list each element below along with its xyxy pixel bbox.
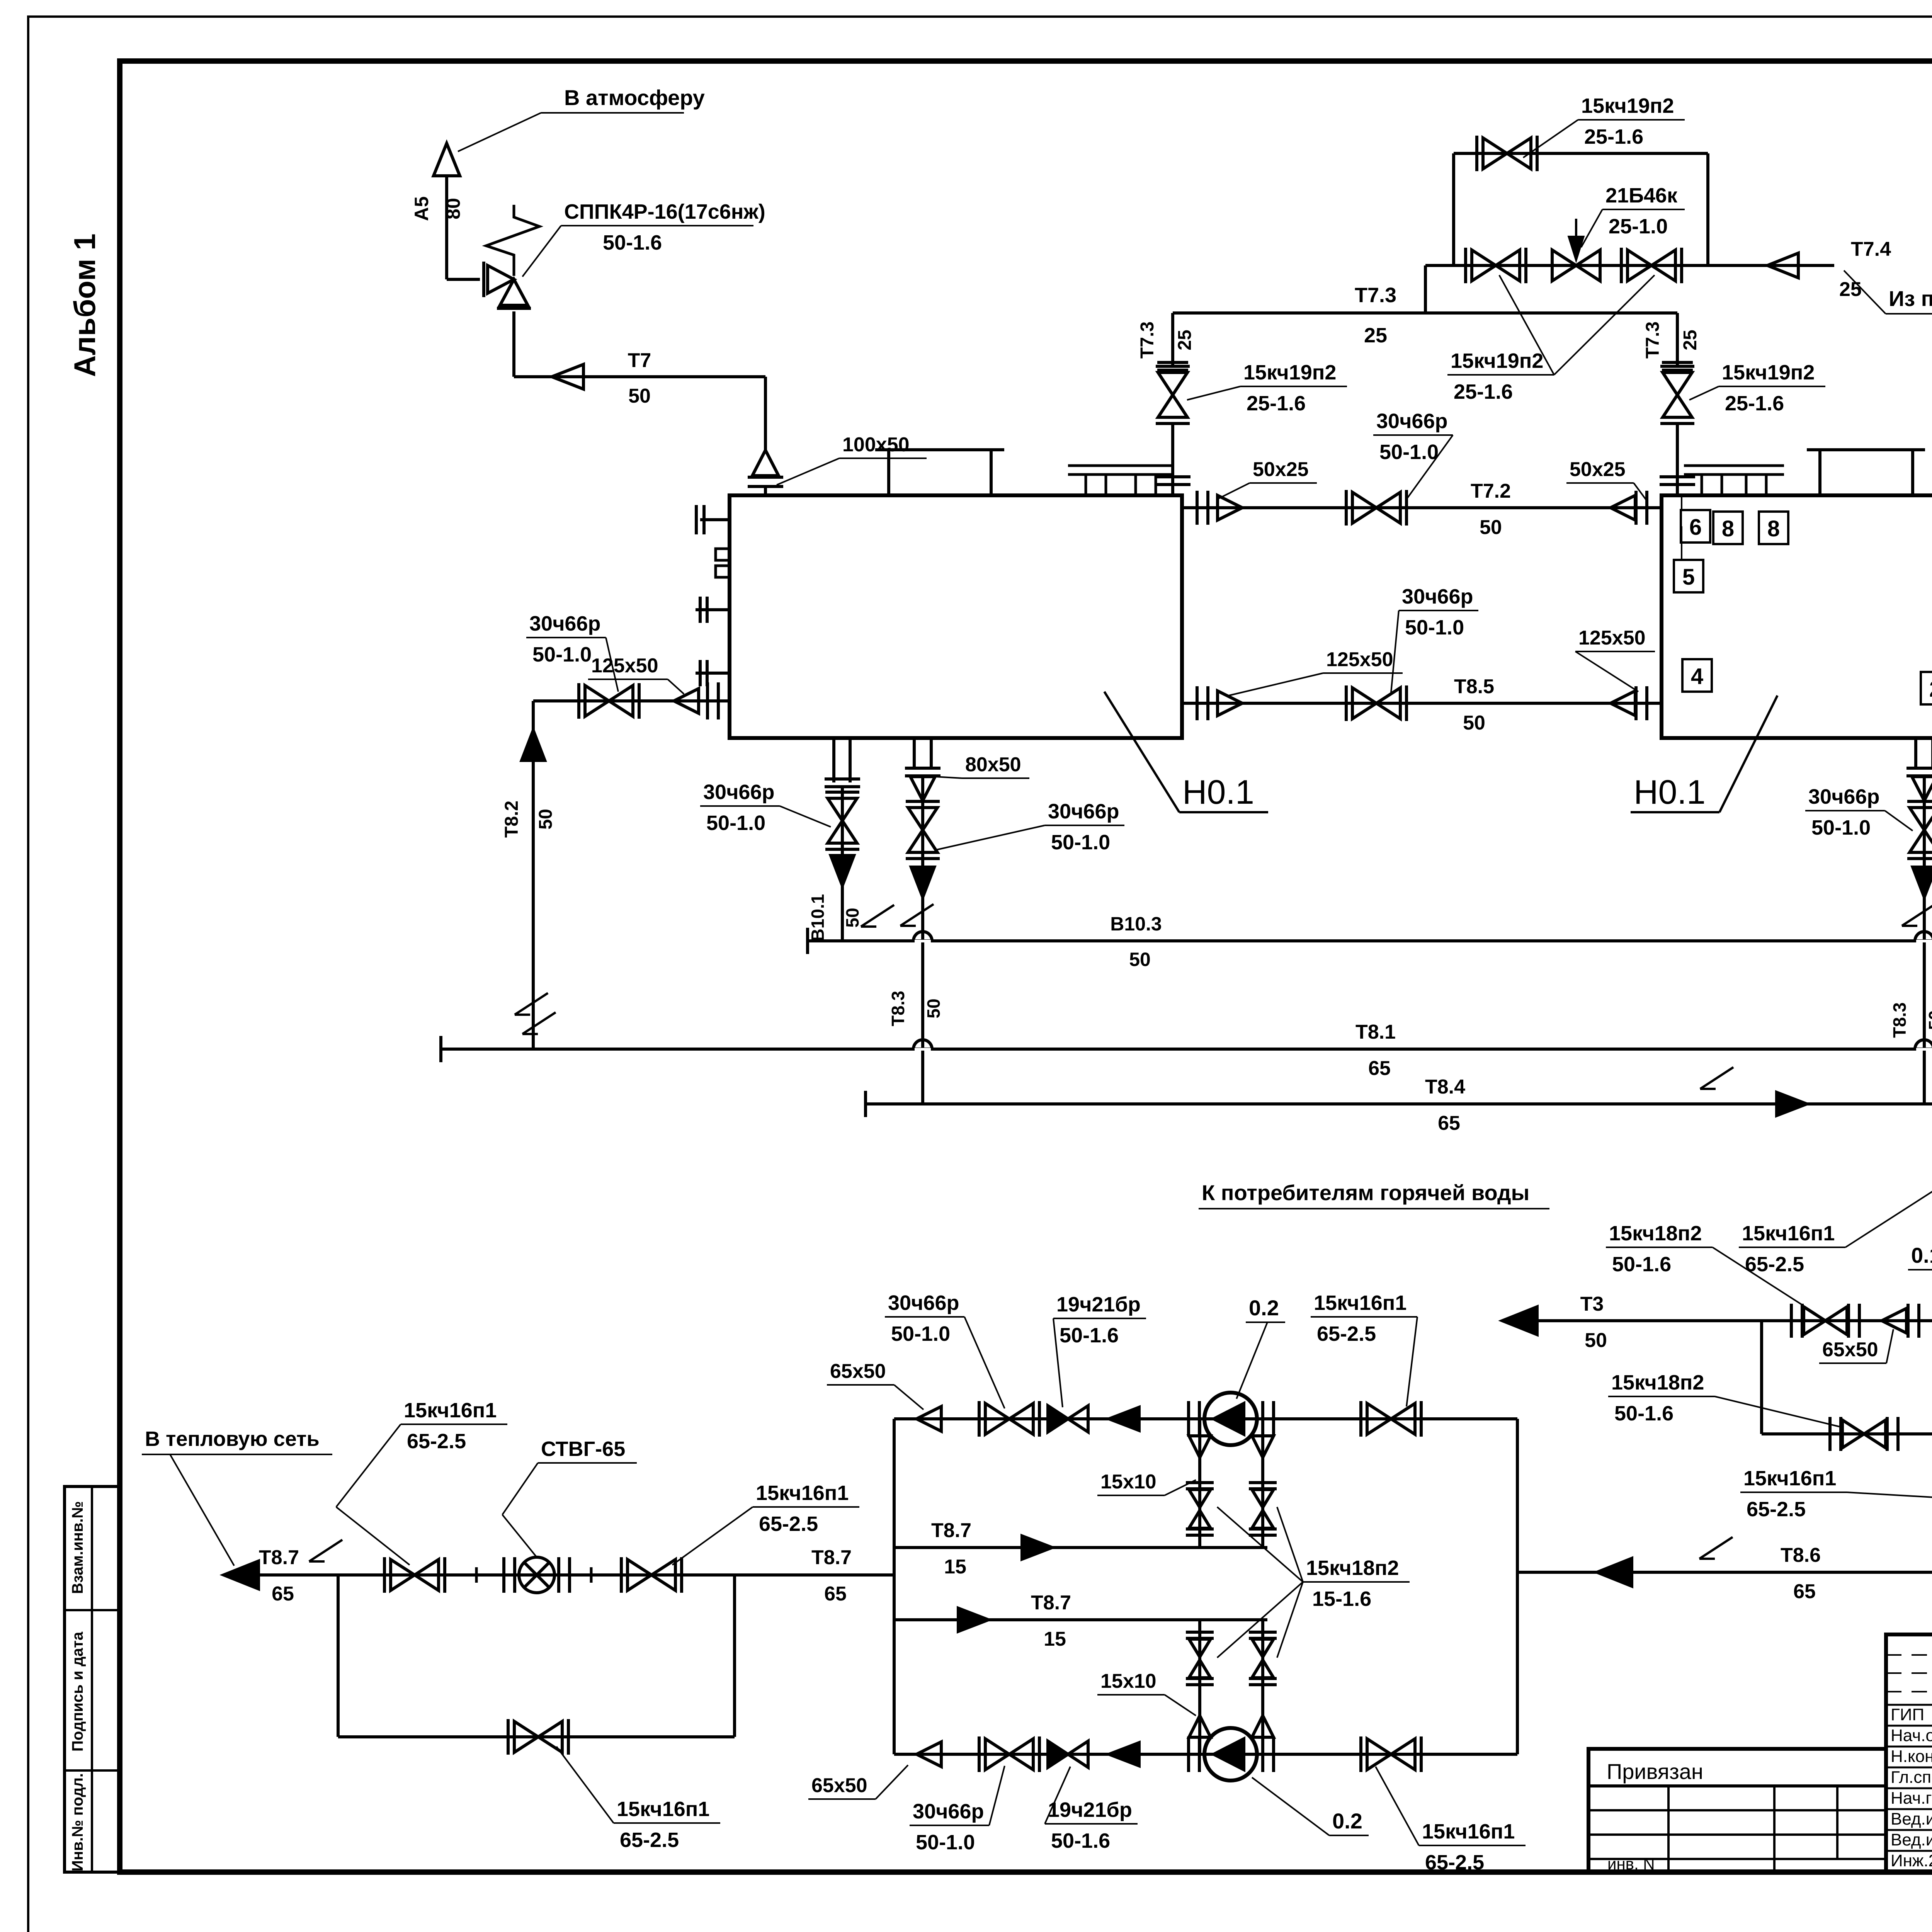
svg-text:50-1.0: 50-1.0 — [532, 643, 592, 666]
reducer 125x50 left inlet — [674, 689, 699, 713]
svg-text:Т8.5: Т8.5 — [1454, 675, 1494, 698]
reducer 100x50 left — [764, 377, 767, 450]
svg-text:25: 25 — [1680, 330, 1701, 350]
svg-text:15-1.6: 15-1.6 — [1312, 1587, 1371, 1611]
valve 30ч66р drain T8.3 right — [1910, 808, 1932, 830]
valve 15кч19п2 steam right — [1628, 250, 1651, 281]
svg-text:Т7.3: Т7.3 — [1643, 321, 1663, 359]
svg-text:100х50: 100х50 — [842, 434, 910, 456]
tank1 top stubs — [1068, 464, 1124, 467]
drain B10.1 left — [832, 738, 835, 782]
pump row 1 line — [894, 1417, 1517, 1420]
pipe T8.4 — [864, 1091, 867, 1117]
pipe T7.3 header — [1173, 311, 1677, 315]
svg-text:80: 80 — [442, 198, 464, 219]
pipe T3 hot water — [1502, 1307, 1537, 1335]
svg-text:Вед.инж.: Вед.инж. — [1891, 1810, 1932, 1828]
svg-text:4: 4 — [1691, 664, 1703, 689]
tank1 side nozzles small — [716, 549, 730, 560]
svg-text:15кч16п1: 15кч16п1 — [1422, 1820, 1515, 1843]
svg-text:15кч19п2: 15кч19п2 — [1581, 94, 1674, 117]
flowmeter СТВГ-65 — [475, 1567, 478, 1583]
numbered box 8b — [1759, 512, 1788, 544]
svg-text:15кч16п1: 15кч16п1 — [617, 1798, 709, 1821]
svg-text:15кч18п2: 15кч18п2 — [1611, 1371, 1704, 1394]
pipe T7 left — [512, 311, 515, 377]
svg-text:15кч19п2: 15кч19п2 — [1722, 361, 1815, 384]
pump row lower reducer 65x50 — [917, 1742, 941, 1767]
svg-text:65-2.5: 65-2.5 — [1747, 1498, 1806, 1521]
riser T7.3 to tank 2 — [1676, 313, 1679, 366]
svg-text:19ч21бр: 19ч21бр — [1056, 1293, 1141, 1316]
svg-text:Инж.2кат.: Инж.2кат. — [1891, 1851, 1932, 1870]
vent line A5 left — [445, 176, 448, 279]
svg-text:0.2: 0.2 — [1332, 1809, 1362, 1833]
svg-text:15кч16п1: 15кч16п1 — [1742, 1222, 1835, 1245]
svg-text:8: 8 — [1722, 516, 1734, 541]
pump row 2 line — [894, 1753, 1517, 1756]
valve 30ч66р pump lower — [985, 1739, 1009, 1770]
svg-text:Взам.инв.№: Взам.инв.№ — [69, 1501, 86, 1594]
svg-text:В тепловую сеть: В тепловую сеть — [145, 1427, 320, 1451]
svg-text:30ч66р: 30ч66р — [529, 612, 600, 635]
svg-text:25-1.6: 25-1.6 — [1584, 125, 1643, 148]
pipe T8.7 main — [224, 1561, 259, 1589]
svg-text:А5: А5 — [411, 196, 432, 221]
svg-text:50-1.0: 50-1.0 — [1811, 816, 1871, 839]
svg-text:50: 50 — [628, 385, 651, 407]
svg-text:Т8.2: Т8.2 — [502, 801, 522, 838]
reducer 65x50 HX inlet — [1882, 1308, 1906, 1333]
numbered box 6 — [1681, 510, 1710, 543]
svg-text:Т3: Т3 — [1580, 1293, 1604, 1315]
svg-text:Т8.6: Т8.6 — [1781, 1544, 1821, 1566]
svg-text:Привязан: Привязан — [1607, 1759, 1703, 1784]
svg-text:30ч66р: 30ч66р — [1048, 800, 1119, 823]
tank1 side flange stub a — [696, 608, 730, 611]
valve 15кч16п1 bypass T8.7 — [514, 1721, 538, 1752]
svg-text:65-2.5: 65-2.5 — [1317, 1322, 1376, 1345]
svg-text:Н0.1: Н0.1 — [1634, 773, 1706, 811]
steam inlet T7.4 — [1767, 253, 1798, 278]
svg-text:СТВГ-65: СТВГ-65 — [541, 1437, 625, 1461]
svg-text:50: 50 — [1925, 1010, 1932, 1030]
svg-text:Т8.3: Т8.3 — [888, 991, 908, 1026]
valve 30ч66р pump upper — [985, 1403, 1009, 1434]
svg-text:15кч16п1: 15кч16п1 — [756, 1481, 849, 1505]
svg-text:Вед.инж.: Вед.инж. — [1891, 1830, 1932, 1849]
pump aux column 2a — [1198, 1620, 1201, 1754]
svg-text:30ч66р: 30ч66р — [1376, 410, 1447, 433]
svg-text:50-1.6: 50-1.6 — [1614, 1402, 1673, 1425]
svg-text:Т8.7: Т8.7 — [931, 1519, 971, 1542]
pipe B10.3 — [806, 928, 809, 954]
svg-text:25-1.6: 25-1.6 — [1247, 392, 1306, 415]
svg-text:65-2.5: 65-2.5 — [759, 1512, 818, 1536]
svg-text:65-2.5: 65-2.5 — [620, 1828, 679, 1852]
svg-text:50-1.0: 50-1.0 — [1379, 440, 1439, 464]
numbered box 8a — [1713, 512, 1743, 544]
svg-text:65: 65 — [272, 1583, 294, 1605]
safety valve СППК4Р-16 left — [447, 278, 480, 281]
svg-text:15: 15 — [944, 1556, 966, 1578]
svg-text:К потребителям горячей воды: К потребителям горячей воды — [1202, 1180, 1529, 1205]
valve 15кч19п2 steam left — [1472, 250, 1496, 281]
svg-text:125х50: 125х50 — [1326, 648, 1393, 671]
svg-text:50: 50 — [1129, 949, 1151, 970]
svg-text:Т8.7: Т8.7 — [811, 1546, 852, 1569]
svg-text:50: 50 — [1463, 712, 1485, 734]
svg-text:15кч16п1: 15кч16п1 — [404, 1399, 497, 1422]
drain T8.3 right — [1914, 738, 1917, 767]
svg-text:Нач.гр.: Нач.гр. — [1891, 1789, 1932, 1808]
title block signature table — [1886, 1634, 1932, 1872]
svg-text:80х50: 80х50 — [965, 753, 1021, 776]
svg-text:15кч16п1: 15кч16п1 — [1743, 1467, 1836, 1490]
valve 15кч18п2 T3 — [1804, 1307, 1825, 1335]
svg-text:21Б46к: 21Б46к — [1605, 184, 1678, 207]
valve 15кч16п1 T8.7 a — [391, 1560, 415, 1590]
svg-text:15х10: 15х10 — [1100, 1471, 1156, 1493]
svg-text:15кч19п2: 15кч19п2 — [1451, 349, 1543, 372]
svg-text:30ч66р: 30ч66р — [888, 1291, 959, 1315]
svg-text:50: 50 — [842, 908, 862, 927]
tank2 manhole bracket — [1807, 448, 1925, 451]
svg-text:65х50: 65х50 — [811, 1774, 867, 1797]
drain T8.3 left — [913, 738, 916, 767]
svg-text:30ч66р: 30ч66р — [1808, 785, 1879, 808]
pump aux column 1a — [1198, 1419, 1201, 1548]
svg-text:Из паропровода: Из паропровода — [1889, 286, 1932, 311]
valve 30ч66р T7.2 — [1352, 492, 1376, 523]
svg-text:19ч21бр: 19ч21бр — [1048, 1798, 1132, 1821]
valve 30ч66р T8.5 — [1352, 688, 1376, 719]
svg-text:50-1.0: 50-1.0 — [706, 811, 765, 835]
bypass B1.1 low — [1760, 1321, 1763, 1434]
svg-text:В атмосферу: В атмосферу — [564, 85, 705, 110]
svg-text:30ч66р: 30ч66р — [913, 1800, 984, 1823]
svg-text:15х10: 15х10 — [1100, 1670, 1156, 1692]
svg-text:50-1.0: 50-1.0 — [1405, 616, 1464, 639]
regulator 21Б46к — [1552, 250, 1576, 281]
valve 30ч66р T8.2 left — [533, 699, 730, 702]
svg-text:65: 65 — [1793, 1580, 1816, 1603]
pipe T7.2 — [1182, 506, 1662, 509]
svg-text:50: 50 — [923, 998, 944, 1018]
svg-text:0.2: 0.2 — [1249, 1296, 1279, 1320]
tank1 manhole bracket — [875, 448, 1004, 451]
flow arrow pump lower — [1109, 1743, 1139, 1766]
pipe T8.1 — [439, 1036, 442, 1062]
svg-text:25: 25 — [1839, 278, 1862, 301]
svg-text:Гл.спец.: Гл.спец. — [1891, 1768, 1932, 1787]
svg-text:8: 8 — [1767, 516, 1780, 541]
pipe T8.7 branch 2 — [894, 1618, 1267, 1621]
svg-text:6: 6 — [1689, 515, 1702, 540]
svg-text:Т8.7: Т8.7 — [259, 1546, 299, 1569]
pipe T8.6 — [1517, 1571, 1932, 1574]
svg-text:50: 50 — [1480, 516, 1502, 539]
svg-text:Подпись и дата: Подпись и дата — [69, 1631, 86, 1752]
svg-text:15кч18п2: 15кч18п2 — [1609, 1222, 1702, 1245]
svg-text:ГИП: ГИП — [1891, 1705, 1924, 1724]
pump rail right — [1516, 1419, 1519, 1754]
svg-text:Н.контр.: Н.контр. — [1891, 1747, 1932, 1766]
check valve 19ч21бр pump lower — [1048, 1741, 1068, 1767]
valve 30ч66р drain T8.3 left — [908, 808, 937, 830]
valve 15кч19п2 riser left — [1158, 372, 1187, 395]
numbered box 2 — [1921, 672, 1932, 704]
svg-text:65х50: 65х50 — [1822, 1338, 1878, 1361]
svg-text:Т7: Т7 — [628, 349, 651, 372]
svg-text:Т8.4: Т8.4 — [1425, 1076, 1465, 1098]
svg-text:25: 25 — [1175, 330, 1195, 350]
svg-text:50: 50 — [1585, 1329, 1607, 1352]
pump aux column 2b — [1261, 1620, 1264, 1754]
numbered box 5 — [1674, 560, 1703, 592]
svg-text:Т8.7: Т8.7 — [1031, 1592, 1071, 1614]
svg-text:125х50: 125х50 — [1578, 627, 1646, 649]
svg-text:Т7.3: Т7.3 — [1137, 321, 1158, 359]
valve 15кч19п2 bypass — [1483, 138, 1507, 169]
pipe T8.5 — [1182, 702, 1662, 705]
pump aux column 1b — [1261, 1419, 1264, 1548]
svg-text:15кч19п2: 15кч19п2 — [1243, 361, 1336, 384]
title block small table Привязан — [1588, 1749, 1886, 1872]
valve 30ч66р drain B10.1 left — [828, 798, 857, 821]
svg-text:65-2.5: 65-2.5 — [1425, 1851, 1484, 1874]
svg-text:Т8.1: Т8.1 — [1355, 1021, 1396, 1043]
valve 15кч16п1 pump lower — [1367, 1739, 1391, 1770]
svg-text:В10.1: В10.1 — [808, 894, 828, 942]
svg-text:50-1.6: 50-1.6 — [1060, 1324, 1119, 1347]
pipe T8.2 left riser — [532, 701, 535, 1049]
svg-text:65х50: 65х50 — [830, 1360, 886, 1383]
svg-text:25: 25 — [1364, 324, 1387, 347]
svg-text:15кч16п1: 15кч16п1 — [1314, 1291, 1406, 1315]
svg-text:65: 65 — [1368, 1057, 1391, 1080]
steam main with regulator — [1425, 264, 1834, 267]
svg-text:30ч66р: 30ч66р — [1402, 585, 1473, 608]
svg-text:Т7.4: Т7.4 — [1851, 238, 1891, 260]
svg-text:50-1.6: 50-1.6 — [1612, 1253, 1671, 1276]
svg-text:125х50: 125х50 — [591, 655, 658, 677]
svg-text:В10.3: В10.3 — [1110, 913, 1162, 935]
svg-text:15: 15 — [1044, 1628, 1066, 1650]
svg-text:Инв.№ подл.: Инв.№ подл. — [69, 1773, 86, 1871]
svg-text:50х25: 50х25 — [1253, 458, 1309, 481]
svg-text:65-2.5: 65-2.5 — [407, 1430, 466, 1453]
riser T7.3 to tank 1 — [1171, 313, 1174, 366]
valve 15кч19п2 riser right — [1663, 372, 1692, 395]
svg-text:Нач.отд.: Нач.отд. — [1891, 1726, 1932, 1745]
pump suction rail left — [893, 1419, 896, 1754]
pipe T8.7 branch 1 — [894, 1546, 1267, 1549]
svg-text:Т8.3: Т8.3 — [1889, 1002, 1910, 1038]
svg-text:50х25: 50х25 — [1570, 458, 1626, 481]
svg-text:50: 50 — [536, 809, 556, 829]
svg-text:50-1.0: 50-1.0 — [1051, 831, 1110, 854]
svg-text:инв. N: инв. N — [1607, 1855, 1655, 1873]
tank H0.1 right — [1662, 495, 1932, 738]
svg-text:Альбом 1: Альбом 1 — [68, 233, 102, 377]
svg-text:Н0.1: Н0.1 — [1182, 773, 1254, 811]
bypass line with valve 15кч19п2 top — [1452, 153, 1455, 265]
pump 0.2 upper — [1187, 1401, 1190, 1437]
svg-text:65-2.5: 65-2.5 — [1745, 1253, 1804, 1276]
svg-text:5: 5 — [1682, 565, 1695, 590]
svg-text:2: 2 — [1929, 677, 1932, 702]
svg-text:Т7.3: Т7.3 — [1355, 284, 1396, 307]
svg-text:0.1: 0.1 — [1911, 1243, 1932, 1267]
svg-text:25-1.6: 25-1.6 — [1725, 392, 1784, 415]
svg-text:25-1.0: 25-1.0 — [1609, 215, 1668, 238]
svg-text:25-1.6: 25-1.6 — [1454, 380, 1513, 403]
left stamp column — [65, 1486, 120, 1872]
svg-text:65: 65 — [1438, 1112, 1460, 1134]
pump 0.2 lower — [1187, 1736, 1190, 1772]
svg-text:50-1.6: 50-1.6 — [603, 231, 662, 254]
svg-text:65: 65 — [824, 1583, 847, 1605]
flow arrow pump upper — [1109, 1407, 1139, 1430]
check valve 19ч21бр pump upper — [1048, 1406, 1068, 1432]
svg-text:30ч66р: 30ч66р — [703, 781, 774, 804]
svg-text:Т7.2: Т7.2 — [1471, 480, 1511, 502]
bypass T8.7 — [337, 1575, 340, 1737]
tank H0.1 left — [730, 495, 1182, 738]
svg-text:50-1.0: 50-1.0 — [891, 1322, 950, 1345]
valve 15кч16п1 pump upper — [1367, 1403, 1391, 1434]
tank1 side flange stub b — [696, 672, 730, 675]
valve 15кч18п2 bypass — [1842, 1420, 1864, 1448]
tank2 top stubs — [1684, 464, 1740, 467]
tank1 side stub capped — [700, 518, 730, 521]
numbered box 4 — [1682, 659, 1712, 692]
svg-text:50-1.0: 50-1.0 — [916, 1831, 975, 1854]
svg-text:50-1.6: 50-1.6 — [1051, 1829, 1110, 1852]
svg-text:СППК4Р-16(17с6нж): СППК4Р-16(17с6нж) — [564, 200, 765, 223]
svg-text:15кч18п2: 15кч18п2 — [1306, 1556, 1399, 1580]
valve 15кч16п1 T8.7 b — [628, 1560, 651, 1590]
pump row upper reducer 65x50 — [917, 1406, 941, 1431]
